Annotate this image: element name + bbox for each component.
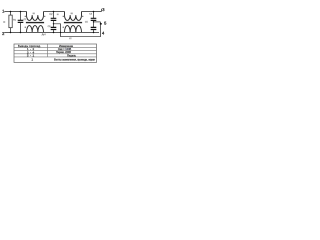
wire top rail right (82, 11, 102, 13)
table v-divider (47, 44, 49, 57)
wire tap to ground (mid) (54, 24, 61, 37)
label mark left of R1 (3, 21, 5, 23)
inductor L2 upper winding (65, 12, 82, 21)
capacitor C5 (93, 30, 95, 33)
node L1 winding dot a (25, 16, 26, 17)
node L2 winding dot a (63, 16, 64, 17)
label mark right of C2 (57, 14, 59, 16)
svg-text:Педаль: Педаль (67, 54, 76, 57)
inductor L1 upper winding (27, 12, 44, 21)
capacitor C1 (20, 12, 22, 33)
table h-line 4 (14, 56, 97, 58)
node L1 winding dot b (44, 16, 45, 17)
wire bottom rail (4, 31, 99, 33)
wire resistor leads (10, 12, 12, 33)
node C1 bottom (20, 32, 22, 34)
wire top rail left (4, 11, 26, 13)
node L1 winding dot c (25, 27, 26, 28)
table h-line 2 (14, 50, 97, 52)
label mark above L2 (71, 13, 73, 15)
table h-line 3 (14, 53, 97, 55)
inductor L2 lower winding (65, 26, 82, 33)
node resistor top (10, 11, 12, 13)
node ground riser crossing (60, 32, 61, 33)
table frame (14, 44, 97, 62)
inductor L2 core (64, 22, 82, 24)
node C3 bottom (53, 32, 55, 34)
svg-text:Болты заземления, провода, экр: Болты заземления, провода, экран (54, 59, 95, 62)
resistor R1 (9, 15, 12, 28)
node L2 winding dot c (63, 27, 64, 28)
wire ground bus (61, 36, 101, 38)
wire ground riser right (100, 22, 102, 37)
label mark above L1 (33, 13, 35, 15)
node C2 tap (53, 23, 54, 24)
svg-text:1: 1 (31, 58, 33, 62)
node C2 top (53, 11, 55, 13)
node C5 bottom (93, 32, 95, 34)
capacitor C4 (93, 12, 95, 28)
node resistor bottom (10, 32, 12, 34)
node C1 top (20, 11, 22, 13)
capacitor C3 (53, 30, 55, 33)
wire tap to terminal 5 (94, 21, 101, 23)
table h-line 1 (14, 47, 97, 49)
terminal 5 pad (100, 23, 102, 25)
terminal 3 tick (101, 9, 103, 12)
capacitor C2 (53, 12, 55, 28)
inductor L1 core (26, 22, 44, 24)
node L2 winding dot b (82, 16, 83, 17)
node C4 tap (93, 21, 94, 22)
wire top rail mid (44, 11, 65, 13)
node C4 top (93, 11, 95, 13)
inductor L1 lower winding (27, 26, 44, 33)
